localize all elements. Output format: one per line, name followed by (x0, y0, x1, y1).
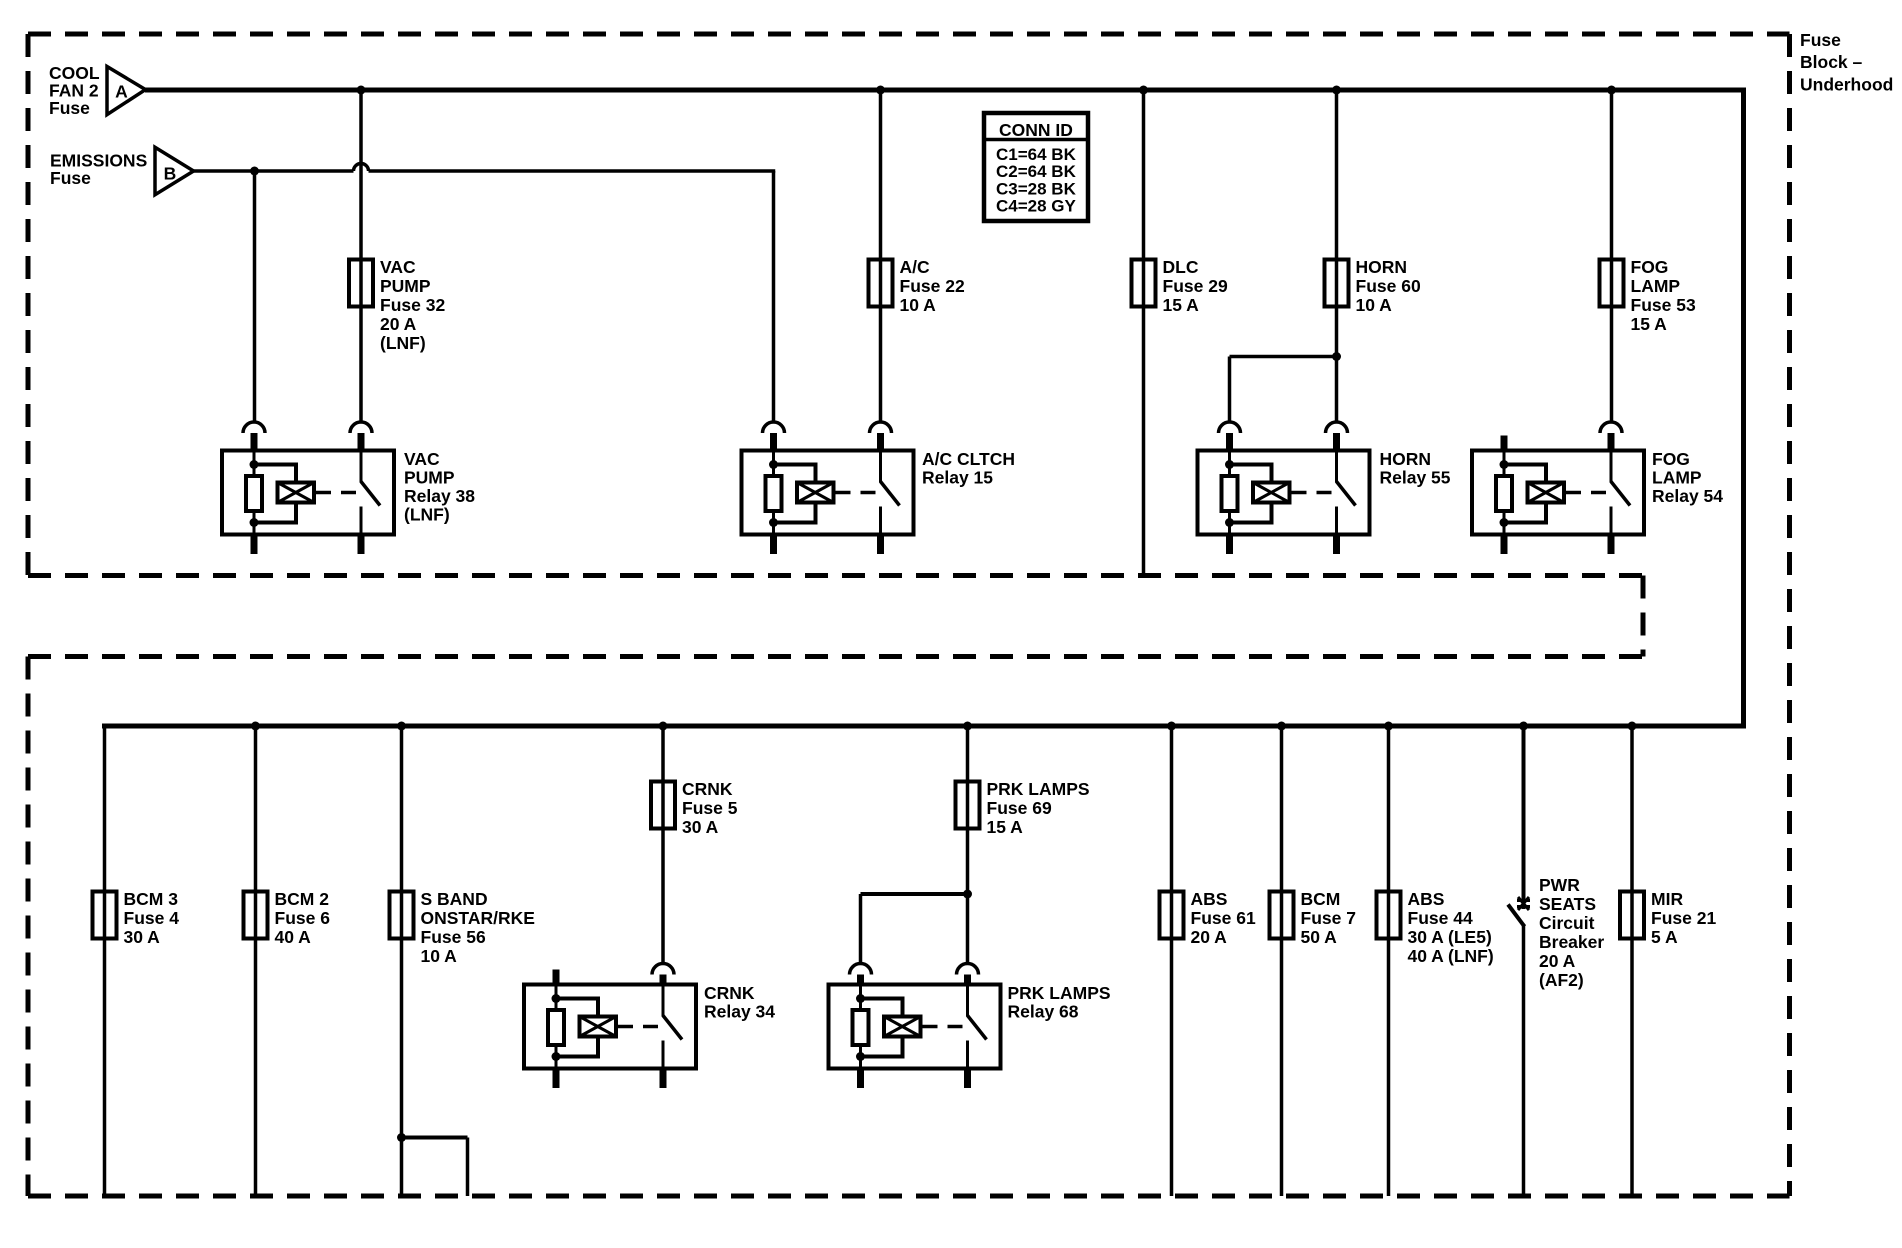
svg-text:Fuse 21: Fuse 21 (1651, 908, 1716, 928)
relay K68 PRK LAMPS Relay 68 coil winding symbol (884, 1017, 921, 1037)
svg-text:Breaker: Breaker (1539, 932, 1604, 952)
svg-text:HORN: HORN (1356, 257, 1408, 277)
relay K54 FOG LAMP Relay 54 actuation link (dashed) (1566, 491, 1607, 495)
svg-text:15 A: 15 A (1631, 314, 1668, 334)
relay K15 A/C CLTCH Relay 15 switch contact (879, 451, 882, 483)
wire: PWR SEATS breaker drop (upper) (1522, 726, 1526, 909)
relay K54 FOG LAMP Relay 54 switch contact (1610, 451, 1613, 483)
junction node bus / MIR fuse (1628, 722, 1637, 731)
wire hop over VAC PUMP fuse wire (354, 164, 369, 171)
relay K34 CRNK Relay 34 switch contact (662, 985, 665, 1017)
svg-text:ONSTAR/RKE: ONSTAR/RKE (421, 908, 535, 928)
svg-text:LAMP: LAMP (1652, 467, 1702, 487)
svg-text:BCM: BCM (1301, 889, 1341, 909)
fuse block boundary notch right edge (1641, 576, 1646, 657)
relay K34 CRNK Relay 34 coil pin (pin 1) (553, 970, 560, 985)
svg-text:ABS: ABS (1408, 889, 1445, 909)
svg-text:(AF2): (AF2) (1539, 970, 1584, 990)
wire: A/C CLTCH relay coil drop from feed B (772, 171, 776, 422)
wire: MIR fuse drop (1630, 726, 1634, 1196)
relay K68 PRK LAMPS Relay 68 switch pin (pin 2) (957, 964, 979, 975)
relay K54 FOG LAMP Relay 54 coil branch wire (1504, 463, 1548, 467)
svg-text:Fuse 44: Fuse 44 (1408, 908, 1473, 928)
svg-text:15 A: 15 A (987, 817, 1024, 837)
fuse DLC Fuse 29 (1132, 260, 1156, 307)
svg-text:(LNF): (LNF) (404, 504, 450, 524)
wire: BCM 2 fuse drop (254, 726, 258, 1196)
svg-text:5 A: 5 A (1651, 927, 1678, 947)
junction node bus / ABS Fuse 61 (1167, 722, 1176, 731)
wire: ABS Fuse 44 drop (1387, 726, 1391, 1196)
relay K55 HORN Relay 55 coil pin (pin 1) (1219, 422, 1241, 433)
svg-text:A: A (115, 81, 128, 101)
wire: HORN relay coil branch (1230, 355, 1337, 359)
svg-text:20 A: 20 A (1539, 951, 1576, 971)
wire: lower section bus (102, 724, 1746, 729)
relay K55 HORN Relay 55 coil suppression resistor (1222, 476, 1238, 511)
fuse PRK LAMPS Fuse 69 (956, 782, 980, 829)
junction node bus / BCM Fuse 7 (1277, 722, 1286, 731)
fuse ABS Fuse 44 (1377, 892, 1401, 939)
svg-text:Fuse: Fuse (50, 168, 91, 188)
relay K55 HORN Relay 55 coil node bottom (1225, 518, 1234, 527)
wire: PRK LAMPS relay coil branch (861, 892, 968, 896)
svg-text:Fuse 7: Fuse 7 (1301, 908, 1356, 928)
relay K15 A/C CLTCH Relay 15 coil node top (769, 460, 778, 469)
svg-text:10 A: 10 A (421, 946, 458, 966)
relay K55 HORN Relay 55 switch pin (pin 2) (1326, 422, 1348, 433)
fuse block boundary notch upper edge (28, 573, 1643, 578)
svg-text:Fuse 61: Fuse 61 (1191, 908, 1256, 928)
fuse block boundary left upper edge (26, 34, 31, 576)
relay K38 VAC PUMP Relay 38 coil pin (pin 1) (243, 422, 265, 433)
svg-text:BCM 2: BCM 2 (275, 889, 330, 909)
svg-text:DLC: DLC (1163, 257, 1199, 277)
svg-text:BCM 3: BCM 3 (124, 889, 179, 909)
wire: VAC PUMP fuse drop (359, 90, 363, 422)
svg-text:Fuse 5: Fuse 5 (682, 798, 738, 818)
wire: A/C fuse drop (879, 90, 883, 422)
svg-text:Relay 15: Relay 15 (922, 467, 993, 487)
relay K38 VAC PUMP Relay 38 body (222, 451, 394, 535)
junction node bus / BCM 2 (251, 722, 260, 731)
circuit breaker PWR SEATS (AF2) (1517, 899, 1530, 902)
relay K15 A/C CLTCH Relay 15 coil pin (pin 1) (763, 422, 785, 433)
wire: BCM 3 fuse drop (103, 726, 107, 1196)
fuse A/C Fuse 22 (869, 260, 893, 307)
svg-text:50 A: 50 A (1301, 927, 1338, 947)
svg-text:30 A: 30 A (124, 927, 161, 947)
svg-text:PUMP: PUMP (404, 467, 455, 487)
relay K55 HORN Relay 55 switch contact (1335, 451, 1338, 483)
relay K38 VAC PUMP Relay 38 coil suppression resistor (246, 476, 262, 511)
fuse BCM 3 Fuse 4 (93, 892, 117, 939)
svg-text:(LNF): (LNF) (380, 333, 426, 353)
svg-text:Fuse 6: Fuse 6 (275, 908, 331, 928)
wire: PRK LAMPS fuse drop (966, 726, 970, 964)
svg-text:Underhood: Underhood (1800, 75, 1893, 95)
svg-text:10 A: 10 A (900, 295, 937, 315)
junction node PRK LAMPS branch (963, 890, 972, 899)
relay K54 FOG LAMP Relay 54 coil suppression resistor (1496, 476, 1512, 511)
relay K55 HORN Relay 55 actuation link (dashed) (1292, 491, 1333, 495)
wire: S BAND fuse drop (400, 726, 404, 1196)
svg-text:SEATS: SEATS (1539, 894, 1596, 914)
wire: FOG LAMP fuse drop (1610, 90, 1614, 422)
relay K34 CRNK Relay 34 coil node bottom (552, 1052, 561, 1061)
svg-text:20 A: 20 A (380, 314, 417, 334)
junction node bus / CRNK (659, 722, 668, 731)
wire: feed B horizontal (with hop at x=361) (194, 169, 354, 173)
relay K15 A/C CLTCH Relay 15 coil branch wire (774, 463, 818, 467)
relay K68 PRK LAMPS Relay 68 switch contact (966, 985, 969, 1017)
svg-text:A/C: A/C (900, 257, 931, 277)
svg-text:C4=28 GY: C4=28 GY (996, 196, 1077, 215)
junction node bus / PWR SEATS breaker (1519, 722, 1528, 731)
junction node bus / PRK LAMPS (963, 722, 972, 731)
svg-text:30 A: 30 A (682, 817, 719, 837)
svg-text:Circuit: Circuit (1539, 913, 1595, 933)
relay K34 CRNK Relay 34 coil branch wire (556, 997, 600, 1001)
svg-text:10 A: 10 A (1356, 295, 1393, 315)
relay K15 A/C CLTCH Relay 15 coil winding symbol (797, 483, 834, 503)
wire: DLC fuse drop (1142, 90, 1146, 576)
junction node wire A / VAC PUMP fuse (357, 86, 366, 95)
fuse ABS Fuse 61 (1160, 892, 1184, 939)
svg-text:FOG: FOG (1631, 257, 1669, 277)
wire: right feed link down to lower bus (1741, 90, 1746, 726)
relay K38 VAC PUMP Relay 38 coil feed wire (253, 451, 256, 535)
fuse block boundary notch lower edge (28, 654, 1643, 659)
relay K38 VAC PUMP Relay 38 actuation link (dashed) (316, 491, 357, 495)
relay K55 HORN Relay 55 coil node top (1225, 460, 1234, 469)
svg-text:Fuse 32: Fuse 32 (380, 295, 445, 315)
junction node wire A / DLC fuse (1139, 86, 1148, 95)
relay K68 PRK LAMPS Relay 68 body (829, 985, 1001, 1069)
relay K34 CRNK Relay 34 switch pin (pin 2) (652, 964, 674, 975)
fuse VAC PUMP Fuse 32 (349, 260, 373, 307)
relay K34 CRNK Relay 34 coil suppression resistor (548, 1010, 564, 1045)
wire: VAC PUMP relay coil feed (253, 171, 257, 422)
svg-text:Fuse 4: Fuse 4 (124, 908, 180, 928)
relay K54 FOG LAMP Relay 54 coil feed wire (1503, 451, 1506, 535)
svg-text:Relay 68: Relay 68 (1008, 1001, 1079, 1021)
svg-text:CRNK: CRNK (682, 779, 733, 799)
fuse MIR Fuse 21 (1620, 892, 1644, 939)
svg-text:Block –: Block – (1800, 52, 1863, 72)
relay K38 VAC PUMP Relay 38 coil node top (250, 460, 259, 469)
junction node bus / ABS Fuse 44 (1384, 722, 1393, 731)
fuse block boundary left lower edge (26, 657, 31, 1197)
fuse BCM Fuse 7 (1270, 892, 1294, 939)
svg-text:PWR: PWR (1539, 875, 1580, 895)
svg-text:30 A (LE5): 30 A (LE5) (1408, 927, 1492, 947)
relay K54 FOG LAMP Relay 54 coil node bottom (1500, 518, 1509, 527)
relay K55 HORN Relay 55 coil branch wire (1230, 463, 1274, 467)
relay K15 A/C CLTCH Relay 15 switch pin (pin 2) (870, 422, 892, 433)
fuse HORN Fuse 60 (1325, 260, 1349, 307)
relay K54 FOG LAMP Relay 54 coil winding symbol (1528, 483, 1565, 503)
relay K15 A/C CLTCH Relay 15 actuation link (dashed) (836, 491, 877, 495)
wire: HORN fuse drop (1335, 90, 1339, 422)
svg-text:ABS: ABS (1191, 889, 1228, 909)
svg-text:LAMP: LAMP (1631, 276, 1681, 296)
relay K54 FOG LAMP Relay 54 switch pin (pin 2) (1600, 422, 1622, 433)
relay K68 PRK LAMPS Relay 68 coil branch wire (861, 997, 905, 1001)
svg-text:VAC: VAC (404, 449, 440, 469)
relay K55 HORN Relay 55 coil feed wire (1228, 451, 1231, 535)
svg-text:FOG: FOG (1652, 449, 1690, 469)
junction on feed B to VAC PUMP relay coil (250, 167, 259, 176)
fuse block boundary bottom edge (28, 1194, 1790, 1199)
relay K34 CRNK Relay 34 body (524, 985, 696, 1069)
fuse S BAND ONSTAR/RKE Fuse 56 (390, 892, 414, 939)
relay K68 PRK LAMPS Relay 68 coil pin (pin 1) (850, 964, 872, 975)
wire: CRNK fuse drop (661, 726, 665, 964)
svg-text:PUMP: PUMP (380, 276, 431, 296)
power feed triangle B (EMISSIONS Fuse) (155, 147, 194, 194)
fuse CRNK Fuse 5 (651, 782, 675, 829)
relay K38 VAC PUMP Relay 38 coil winding symbol (278, 483, 315, 503)
svg-text:CONN ID: CONN ID (999, 120, 1073, 140)
fuse BCM 2 Fuse 6 (244, 892, 268, 939)
wire: feed A bus (horizontal) (145, 88, 1746, 93)
relay K15 A/C CLTCH Relay 15 body (742, 451, 914, 535)
svg-text:20 A: 20 A (1191, 927, 1228, 947)
wire: BCM Fuse 7 drop (1280, 726, 1284, 1196)
svg-text:PRK LAMPS: PRK LAMPS (987, 779, 1090, 799)
svg-text:40 A (LNF): 40 A (LNF) (1408, 946, 1494, 966)
svg-text:Relay 55: Relay 55 (1380, 467, 1451, 487)
relay K34 CRNK Relay 34 coil feed wire (555, 985, 558, 1069)
relay K38 VAC PUMP Relay 38 coil node bottom (250, 518, 259, 527)
relay K68 PRK LAMPS Relay 68 coil node top (856, 994, 865, 1003)
relay K38 VAC PUMP Relay 38 switch contact (360, 451, 363, 483)
fuse block boundary right edge (1787, 34, 1792, 1196)
junction node bus / S BAND (397, 722, 406, 731)
svg-text:MIR: MIR (1651, 889, 1683, 909)
junction node S BAND lower branch (397, 1133, 406, 1142)
svg-text:Fuse 56: Fuse 56 (421, 927, 486, 947)
relay K54 FOG LAMP Relay 54 coil node top (1500, 460, 1509, 469)
svg-text:Relay 38: Relay 38 (404, 486, 475, 506)
svg-text:Relay 34: Relay 34 (704, 1001, 775, 1021)
relay K68 PRK LAMPS Relay 68 coil feed wire (859, 985, 862, 1069)
relay K15 A/C CLTCH Relay 15 coil node bottom (769, 518, 778, 527)
svg-text:Fuse 29: Fuse 29 (1163, 276, 1228, 296)
relay K34 CRNK Relay 34 actuation link (dashed) (618, 1025, 659, 1029)
svg-text:Fuse 22: Fuse 22 (900, 276, 965, 296)
junction node wire A / HORN fuse (1332, 86, 1341, 95)
svg-text:Fuse: Fuse (1800, 30, 1841, 50)
relay K68 PRK LAMPS Relay 68 coil suppression resistor (853, 1010, 869, 1045)
power feed triangle A (COOL FAN 2 Fuse) (107, 67, 146, 115)
relay K68 PRK LAMPS Relay 68 coil node bottom (856, 1052, 865, 1061)
svg-text:HORN: HORN (1380, 449, 1432, 469)
relay K55 HORN Relay 55 coil winding symbol (1253, 483, 1290, 503)
relay K34 CRNK Relay 34 coil node top (552, 994, 561, 1003)
svg-text:Fuse: Fuse (49, 98, 90, 118)
svg-text:Fuse 60: Fuse 60 (1356, 276, 1421, 296)
svg-text:15 A: 15 A (1163, 295, 1200, 315)
relay K38 VAC PUMP Relay 38 switch pin (pin 2) (350, 422, 372, 433)
wire: S BAND lower branch (402, 1136, 468, 1140)
junction node wire A / AC fuse (876, 86, 885, 95)
svg-text:S BAND: S BAND (421, 889, 488, 909)
relay K54 FOG LAMP Relay 54 body (1472, 451, 1644, 535)
svg-text:C1=64 BK: C1=64 BK (996, 145, 1077, 164)
relay K55 HORN Relay 55 body (1198, 451, 1370, 535)
wire: ABS Fuse 61 drop (1170, 726, 1174, 1196)
fuse block boundary (dashed) top edge (28, 32, 1790, 37)
relay K15 A/C CLTCH Relay 15 coil feed wire (772, 451, 775, 535)
svg-text:Relay 54: Relay 54 (1652, 486, 1723, 506)
relay K68 PRK LAMPS Relay 68 actuation link (dashed) (923, 1025, 964, 1029)
junction node wire A / FOG LAMP fuse (1607, 86, 1616, 95)
svg-text:VAC: VAC (380, 257, 416, 277)
fuse FOG LAMP Fuse 53 (1600, 260, 1624, 307)
CONN ID table (984, 113, 1088, 221)
svg-text:PRK LAMPS: PRK LAMPS (1008, 983, 1111, 1003)
svg-text:40 A: 40 A (275, 927, 312, 947)
relay K34 CRNK Relay 34 coil winding symbol (580, 1017, 617, 1037)
svg-text:Fuse 69: Fuse 69 (987, 798, 1052, 818)
relay K54 FOG LAMP Relay 54 coil pin (pin 1) (1501, 436, 1508, 451)
svg-text:A/C CLTCH: A/C CLTCH (922, 449, 1015, 469)
svg-text:Fuse 53: Fuse 53 (1631, 295, 1696, 315)
svg-text:B: B (164, 163, 177, 183)
junction node HORN branch (1332, 352, 1341, 361)
svg-text:CRNK: CRNK (704, 983, 755, 1003)
relay K15 A/C CLTCH Relay 15 coil suppression resistor (766, 476, 782, 511)
relay K38 VAC PUMP Relay 38 coil branch wire (254, 463, 298, 467)
